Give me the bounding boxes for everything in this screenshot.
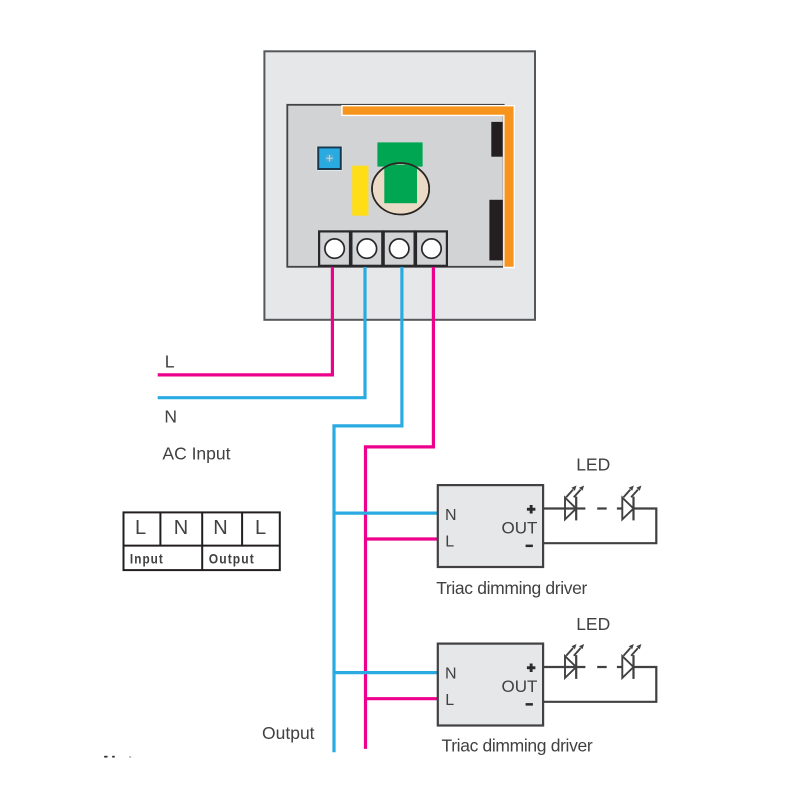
driver 2 minus terminal (526, 703, 533, 706)
clipped note text fragment (104, 756, 131, 758)
driver 1 LED + wire (543, 507, 585, 509)
svg-text:OUT: OUT (502, 519, 538, 538)
black component bar upper (491, 122, 502, 157)
svg-text:LED: LED (576, 455, 610, 475)
wire branch pink to driver 2 L (366, 697, 438, 700)
dashed continuation wires 2 (597, 666, 622, 668)
driver 2 return wire (543, 667, 656, 702)
svg-text:Triac dimming driver: Triac dimming driver (436, 578, 587, 598)
svg-text:N: N (164, 407, 177, 427)
svg-text:L: L (445, 692, 454, 709)
terminal block 1 (319, 231, 350, 265)
yellow capacitor (352, 166, 368, 216)
LED D1 (565, 486, 584, 521)
svg-text:L: L (445, 534, 454, 551)
svg-text:L: L (135, 517, 146, 539)
svg-text:L: L (165, 351, 175, 371)
trimmer pot (blue square) (317, 146, 342, 170)
svg-text:N: N (174, 517, 188, 539)
driver 2 box (438, 644, 543, 726)
svg-text:N: N (445, 507, 457, 524)
svg-text:N: N (445, 665, 457, 682)
svg-text:OUT: OUT (502, 677, 538, 696)
svg-text:AC Input: AC Input (162, 443, 230, 463)
svg-text:N: N (213, 517, 227, 539)
driver 1 plus terminal (527, 505, 536, 514)
terminal block 2 (351, 231, 382, 265)
driver 2 LED + wire (543, 666, 585, 668)
PCB board (287, 105, 503, 267)
driver 1 box (438, 485, 543, 567)
wire N from terminal 2 to AC input (158, 265, 365, 398)
wire branch blue to driver 2 N (334, 671, 438, 674)
wire output L (pink) from terminal 4 down (366, 265, 434, 749)
dimmer enclosure (outer box) (264, 51, 535, 320)
wire L from terminal 1 to AC input (158, 265, 333, 375)
svg-text:LED: LED (576, 614, 610, 634)
driver 1 return wire (543, 509, 656, 544)
potentiometer disc (tan) (372, 163, 429, 214)
green capacitor top (377, 142, 422, 166)
svg-text:Output: Output (209, 552, 255, 567)
driver 2 plus terminal (527, 664, 536, 673)
wire output N (blue) from terminal 3 down (334, 265, 402, 752)
svg-text:Output: Output (262, 723, 315, 743)
potentiometer disc outline overlay (372, 163, 429, 214)
svg-text:Input: Input (130, 552, 164, 567)
LED D3 (565, 644, 584, 679)
terminal block 4 (416, 231, 447, 265)
terminal block 3 (384, 231, 415, 265)
dashed continuation wires (597, 507, 622, 509)
LED D4 (622, 644, 641, 679)
orange heatsink L-strip (342, 106, 514, 268)
driver 1 minus terminal (526, 545, 533, 548)
LED D2 (622, 486, 641, 521)
black component bar lower (489, 200, 502, 261)
svg-text:Triac dimming driver: Triac dimming driver (442, 735, 593, 755)
green capacitor body (384, 165, 417, 204)
svg-text:L: L (255, 517, 266, 539)
wire branch pink to driver 1 L (366, 537, 438, 540)
wire branch blue to driver 1 N (334, 511, 438, 514)
terminal legend table (124, 512, 280, 570)
